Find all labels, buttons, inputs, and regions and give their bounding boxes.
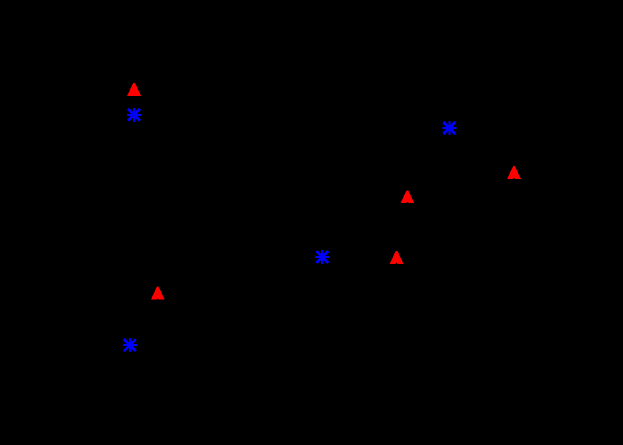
blue asterisk marker B3 bbox=[315, 250, 329, 264]
red triangle marker T2 bbox=[507, 166, 521, 179]
red triangle marker T1 bbox=[127, 83, 141, 96]
black curve notch over triangle T4 bbox=[395, 262, 398, 265]
black curve notch over triangle T3 bbox=[406, 202, 409, 203]
red triangle marker T5 bbox=[151, 287, 165, 300]
black curve notch over triangle T5 bbox=[157, 299, 160, 300]
red triangle marker T4 bbox=[390, 251, 404, 264]
blue asterisk marker B1 bbox=[127, 108, 141, 122]
blue asterisk marker B2 bbox=[442, 121, 456, 135]
red triangle marker T3 bbox=[401, 190, 415, 203]
black curve notch over triangle T2 bbox=[513, 178, 516, 179]
blue asterisk marker B4 bbox=[123, 338, 137, 352]
